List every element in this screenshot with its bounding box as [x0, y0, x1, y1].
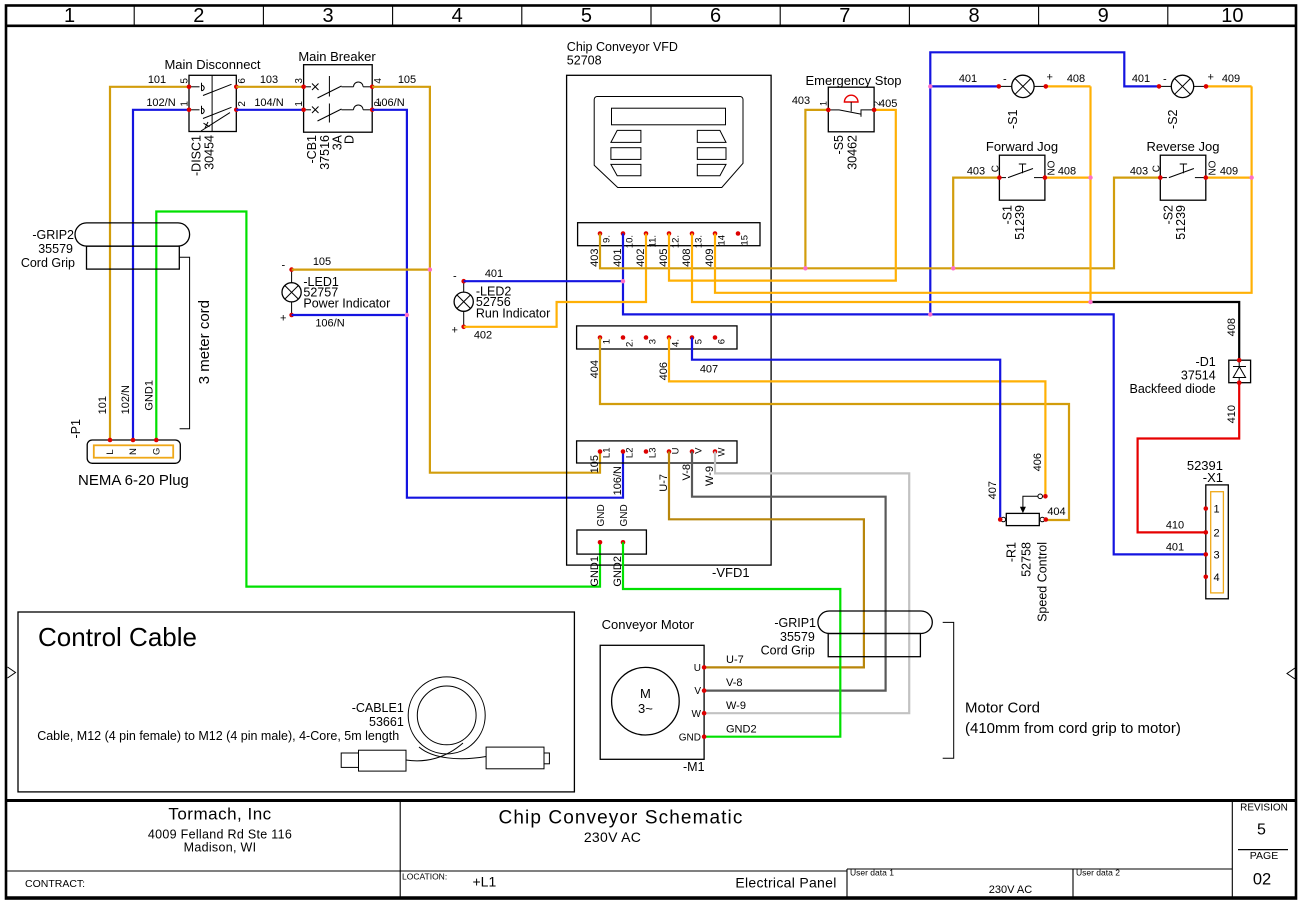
svg-text:-VFD1: -VFD1	[712, 565, 750, 580]
svg-text:230V AC: 230V AC	[989, 884, 1032, 896]
svg-text:5: 5	[694, 339, 705, 344]
svg-text:-GRIP1: -GRIP1	[774, 616, 816, 630]
svg-text:Tormach, Inc: Tormach, Inc	[168, 805, 271, 824]
svg-text:30454: 30454	[203, 135, 217, 170]
svg-text:8: 8	[968, 5, 979, 27]
svg-text:37514: 37514	[1181, 369, 1216, 383]
svg-text:409: 409	[1222, 73, 1240, 85]
svg-text:408: 408	[1226, 318, 1238, 336]
svg-text:10.: 10.	[625, 235, 636, 248]
wire 410 net	[1138, 383, 1240, 533]
svg-text:3: 3	[322, 5, 333, 27]
junction 408 bus	[1088, 300, 1092, 304]
svg-text:6: 6	[717, 339, 728, 344]
title block texts	[25, 803, 1288, 897]
wire W-9 net	[704, 452, 909, 714]
svg-text:3: 3	[294, 78, 305, 84]
svg-text:W-9: W-9	[704, 466, 716, 486]
title block frame	[5, 801, 1297, 898]
svg-text:51239: 51239	[1013, 205, 1027, 240]
wire 104/N	[236, 109, 303, 111]
VFD ground strip	[577, 504, 647, 586]
svg-text:CONTRACT:: CONTRACT:	[25, 878, 85, 890]
svg-text:+L1: +L1	[473, 874, 497, 890]
svg-text:2: 2	[872, 101, 882, 106]
svg-text:4: 4	[452, 5, 463, 27]
svg-text:403: 403	[792, 95, 810, 107]
svg-text:U: U	[694, 663, 701, 674]
svg-text:106/N: 106/N	[612, 466, 624, 495]
svg-text:105: 105	[398, 74, 416, 86]
svg-text:404: 404	[589, 360, 601, 378]
svg-text:User data 1: User data 1	[850, 868, 894, 878]
svg-text:Cord Grip: Cord Grip	[761, 644, 815, 658]
svg-text:-S2: -S2	[1166, 109, 1180, 129]
svg-text:Main Disconnect: Main Disconnect	[164, 57, 260, 72]
svg-text:7: 7	[839, 5, 850, 27]
reverse jog switch S2	[1151, 155, 1218, 240]
wire 105	[372, 87, 600, 473]
svg-text:409: 409	[704, 249, 716, 267]
svg-text:401: 401	[485, 268, 503, 280]
svg-text:4: 4	[373, 78, 384, 84]
svg-text:GND: GND	[679, 733, 701, 744]
svg-text:Madison, WI: Madison, WI	[184, 841, 257, 855]
junction 401 at S1 lamp	[928, 84, 932, 88]
svg-text:401: 401	[959, 73, 977, 85]
svg-text:407: 407	[700, 364, 718, 376]
svg-text:W: W	[692, 709, 702, 720]
svg-text:U-7: U-7	[726, 654, 744, 666]
wire 404 net	[600, 338, 1069, 521]
svg-text:-D1: -D1	[1196, 355, 1216, 369]
svg-text:Motor Cord: Motor Cord	[965, 699, 1040, 716]
svg-text:Forward Jog: Forward Jog	[986, 139, 1058, 154]
lamp S2	[1157, 72, 1214, 129]
svg-text:401: 401	[1166, 541, 1184, 553]
junction 401/LED2	[621, 279, 625, 283]
emergency stop S5	[819, 87, 883, 170]
svg-text:1: 1	[180, 101, 191, 107]
wire 408 net orange part	[692, 86, 1091, 302]
border left arrow mark	[8, 667, 16, 678]
svg-text:230V AC: 230V AC	[584, 829, 641, 845]
svg-text:U: U	[671, 447, 682, 454]
wire 105 LED1 branch	[292, 269, 430, 271]
wire 401 net	[464, 234, 1206, 555]
svg-text:W-9: W-9	[726, 700, 746, 712]
svg-text:-CABLE1: -CABLE1	[352, 701, 404, 715]
junction 401 bus lamp feed	[928, 312, 932, 316]
svg-text:02: 02	[1253, 871, 1271, 889]
svg-text:102/N: 102/N	[120, 385, 132, 414]
wire 101	[110, 87, 189, 440]
svg-text:4.: 4.	[671, 339, 682, 347]
svg-text:+: +	[1047, 72, 1053, 84]
wire V-8 net	[692, 452, 886, 691]
main disconnect DISC1	[180, 75, 249, 176]
svg-text:408: 408	[1067, 73, 1085, 85]
border column numbers	[64, 5, 1243, 27]
svg-text:401: 401	[612, 249, 624, 267]
svg-text:403: 403	[1130, 166, 1148, 178]
3 meter cord bracket	[180, 257, 190, 429]
main breaker CB1	[294, 65, 384, 170]
svg-text:11.: 11.	[648, 235, 659, 248]
svg-text:2: 2	[237, 101, 248, 107]
NEMA plug P1	[69, 419, 180, 463]
forward jog switch S1	[991, 155, 1058, 240]
svg-text:406: 406	[658, 362, 670, 380]
svg-text:-: -	[453, 271, 457, 283]
svg-text:51239: 51239	[1174, 205, 1188, 240]
svg-text:W: W	[717, 447, 728, 456]
svg-text:1: 1	[294, 101, 305, 107]
svg-text:LOCATION:: LOCATION:	[402, 872, 447, 882]
border right arrow mark	[1287, 668, 1295, 679]
svg-text:106/N: 106/N	[375, 97, 404, 109]
svg-text:Main Breaker: Main Breaker	[298, 49, 376, 64]
svg-text:Emergency Stop: Emergency Stop	[805, 73, 901, 88]
svg-text:2.: 2.	[625, 339, 636, 347]
svg-text:403: 403	[967, 166, 985, 178]
svg-text:4: 4	[1214, 572, 1220, 584]
diode D1	[1130, 355, 1251, 396]
svg-text:409: 409	[1220, 166, 1238, 178]
svg-text:V: V	[694, 686, 701, 697]
svg-text:-P1: -P1	[69, 419, 83, 439]
svg-text:PAGE: PAGE	[1250, 850, 1278, 862]
svg-text:-: -	[1163, 74, 1167, 86]
svg-text:1: 1	[819, 101, 829, 106]
svg-text:-CB1: -CB1	[305, 135, 319, 164]
wire GND1 green plug run	[156, 212, 600, 587]
svg-text:102/N: 102/N	[146, 97, 175, 109]
svg-text:1: 1	[602, 339, 613, 344]
svg-text:5: 5	[180, 78, 191, 84]
svg-text:15: 15	[740, 235, 751, 246]
svg-text:-GRIP2: -GRIP2	[32, 228, 74, 242]
potentiometer R1	[998, 494, 1050, 622]
VFD terminal strip 2 (pins 1-6)	[577, 326, 737, 349]
LED2 run indicator	[452, 271, 551, 337]
svg-text:3: 3	[648, 339, 659, 344]
svg-text:NEMA 6-20 Plug: NEMA 6-20 Plug	[78, 472, 189, 489]
svg-text:Cord Grip: Cord Grip	[21, 256, 75, 270]
svg-text:402: 402	[474, 330, 492, 342]
lamp S1	[997, 72, 1053, 129]
svg-text:C: C	[991, 165, 1002, 172]
svg-text:402: 402	[635, 249, 647, 267]
motor cord bracket	[943, 622, 954, 758]
svg-text:Run Indicator: Run Indicator	[476, 307, 550, 321]
VFD terminal strip 3 (L1 L2 L3 U V W)	[577, 441, 737, 463]
svg-text:Cable, M12 (4 pin female) to M: Cable, M12 (4 pin female) to M12 (4 pin …	[37, 729, 399, 743]
wire 405 net	[669, 110, 896, 281]
svg-text:35579: 35579	[38, 242, 73, 256]
svg-text:405: 405	[658, 249, 670, 267]
svg-text:N: N	[128, 448, 139, 455]
svg-text:52708: 52708	[567, 54, 602, 68]
svg-text:30462: 30462	[846, 135, 860, 170]
svg-text:101: 101	[97, 396, 109, 414]
svg-text:V: V	[694, 447, 705, 454]
svg-text:GND: GND	[596, 504, 607, 526]
wire 402 net	[464, 234, 646, 327]
border column ticks	[134, 6, 1168, 25]
svg-text:L3: L3	[648, 448, 659, 459]
svg-text:3 meter cord: 3 meter cord	[196, 300, 213, 384]
svg-text:Conveyor Motor: Conveyor Motor	[602, 617, 695, 632]
wire GND2 net	[623, 542, 840, 736]
svg-text:M: M	[640, 686, 651, 701]
svg-text:-: -	[282, 260, 286, 272]
svg-text:-DISC1: -DISC1	[190, 135, 204, 176]
svg-text:404: 404	[1047, 506, 1065, 518]
svg-text:6: 6	[710, 5, 721, 27]
wire 106/N	[372, 110, 623, 498]
svg-text:Control Cable: Control Cable	[38, 622, 197, 652]
junction 409/reverse NO	[1249, 175, 1253, 179]
wire 407 net	[692, 338, 1000, 520]
svg-text:104/N: 104/N	[254, 97, 283, 109]
svg-text:52758: 52758	[1020, 542, 1034, 577]
wire 409 net	[715, 86, 1252, 292]
svg-text:Chip Conveyor Schematic: Chip Conveyor Schematic	[499, 808, 744, 829]
junction 408/forward NO	[1088, 175, 1092, 179]
svg-text:G: G	[152, 448, 163, 455]
VFD box VFD1	[567, 75, 772, 565]
svg-text:410: 410	[1226, 405, 1238, 423]
svg-text:403: 403	[589, 249, 601, 267]
svg-text:-R1: -R1	[1005, 542, 1019, 562]
wire U-7 net	[669, 452, 864, 668]
svg-text:2: 2	[193, 5, 204, 27]
wire 401 lamp feed	[930, 52, 1159, 314]
cable CABLE1 drawing	[341, 677, 549, 771]
VFD terminal strip 1 (pins 9-15)	[578, 223, 760, 249]
border header separator line	[5, 24, 1297, 27]
svg-text:GND: GND	[619, 504, 630, 526]
svg-text:407: 407	[987, 481, 999, 499]
svg-text:D: D	[343, 135, 357, 144]
svg-text:408: 408	[1058, 166, 1076, 178]
svg-text:2: 2	[1214, 527, 1220, 539]
svg-text:13.: 13.	[694, 235, 705, 248]
svg-text:9: 9	[1098, 5, 1109, 27]
svg-text:GND2: GND2	[726, 724, 757, 736]
connector X1	[1187, 458, 1228, 599]
svg-text:NO: NO	[1207, 160, 1218, 175]
svg-text:V-8: V-8	[681, 464, 693, 481]
svg-text:U-7: U-7	[658, 474, 670, 492]
wire 106/N LED1 branch	[292, 314, 407, 316]
svg-text:103: 103	[260, 74, 278, 86]
svg-text:14: 14	[717, 235, 728, 246]
LED1 power indicator	[280, 260, 390, 325]
junction 403/estop	[803, 266, 807, 270]
svg-text:-S5: -S5	[832, 135, 846, 155]
junction 403/forward jog	[951, 266, 955, 270]
svg-text:-: -	[1003, 74, 1007, 86]
svg-text:User data 2: User data 2	[1076, 868, 1120, 878]
svg-text:-X1: -X1	[1203, 470, 1223, 485]
svg-text:Backfeed diode: Backfeed diode	[1130, 382, 1216, 396]
svg-text:101: 101	[148, 74, 166, 86]
svg-text:+: +	[452, 325, 458, 337]
svg-text:Electrical Panel: Electrical Panel	[735, 875, 836, 891]
svg-text:-M1: -M1	[683, 760, 705, 774]
svg-text:Speed Control: Speed Control	[1036, 542, 1050, 622]
svg-text:105: 105	[589, 455, 601, 473]
wire 102/N	[133, 110, 189, 440]
svg-text:3: 3	[1214, 549, 1220, 561]
svg-text:3~: 3~	[638, 701, 653, 716]
cord grip GRIP1	[761, 611, 933, 658]
svg-text:GND1: GND1	[589, 556, 601, 587]
svg-text:35579: 35579	[780, 630, 815, 644]
control cable box	[18, 612, 574, 792]
svg-text:Chip Conveyor VFD: Chip Conveyor VFD	[567, 40, 678, 54]
svg-text:6: 6	[237, 78, 248, 84]
svg-text:410: 410	[1166, 519, 1184, 531]
svg-text:105: 105	[313, 256, 331, 268]
svg-text:Reverse Jog: Reverse Jog	[1147, 139, 1220, 154]
svg-text:1: 1	[1214, 504, 1220, 516]
motor M1	[600, 645, 706, 774]
svg-text:5: 5	[581, 5, 592, 27]
svg-text:(410mm from cord grip to motor: (410mm from cord grip to motor)	[965, 720, 1181, 737]
svg-text:+: +	[280, 313, 286, 325]
svg-text:L2: L2	[625, 448, 636, 459]
svg-text:406: 406	[1032, 453, 1044, 471]
svg-text:REVISION: REVISION	[1240, 803, 1288, 814]
wire 403 net bus	[600, 110, 1160, 268]
svg-text:401: 401	[1132, 73, 1150, 85]
svg-text:12.: 12.	[671, 235, 682, 248]
svg-text:NO: NO	[1047, 160, 1058, 175]
svg-text:4009 Felland Rd Ste 116: 4009 Felland Rd Ste 116	[148, 828, 292, 842]
svg-text:C: C	[1151, 165, 1162, 172]
svg-text:106/N: 106/N	[315, 318, 344, 330]
VFD faceplate	[594, 97, 743, 188]
svg-text:10: 10	[1221, 5, 1243, 27]
svg-text:408: 408	[681, 249, 693, 267]
junction 105/LED1	[428, 267, 432, 271]
svg-text:L: L	[105, 449, 116, 454]
svg-text:Power Indicator: Power Indicator	[303, 297, 390, 311]
svg-text:GND1: GND1	[143, 380, 155, 411]
wire 408 black part to diode	[1091, 302, 1240, 360]
svg-text:53661: 53661	[369, 715, 404, 729]
cord grip GRIP2	[21, 223, 190, 270]
junction 106N/LED1	[405, 313, 409, 317]
svg-text:-S1: -S1	[1006, 109, 1020, 129]
svg-text:L1: L1	[602, 448, 613, 459]
svg-text:1: 1	[64, 5, 75, 27]
wire 406 net	[669, 338, 1045, 497]
svg-text:+: +	[1208, 72, 1214, 84]
wire 103	[236, 86, 303, 88]
svg-text:5: 5	[1257, 822, 1266, 839]
svg-text:V-8: V-8	[726, 677, 743, 689]
svg-text:9.: 9.	[602, 235, 613, 243]
